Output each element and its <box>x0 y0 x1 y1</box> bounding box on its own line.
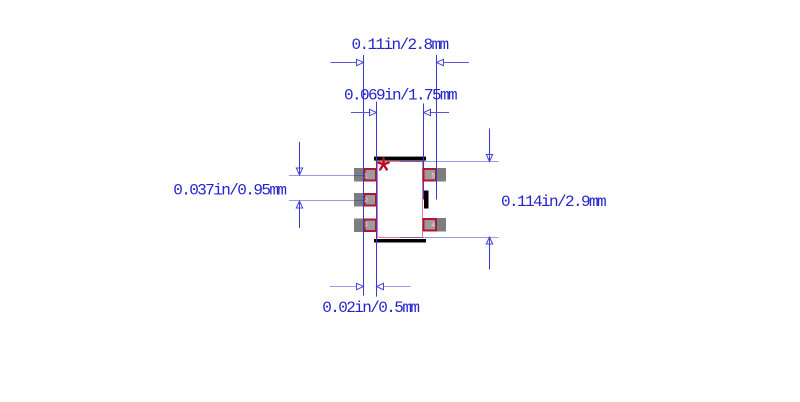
svg-text:0.02in/0.5mm: 0.02in/0.5mm <box>322 299 419 317</box>
svg-text:2: 2 <box>364 197 368 204</box>
svg-text:1: 1 <box>364 172 368 179</box>
svg-text:0.114in/2.9mm: 0.114in/2.9mm <box>501 193 606 211</box>
svg-text:5: 5 <box>431 172 435 179</box>
svg-text:0.069in/1.75mm: 0.069in/1.75mm <box>344 86 457 104</box>
svg-text:0.037in/0.95mm: 0.037in/0.95mm <box>173 181 286 199</box>
svg-text:0.11in/2.8mm: 0.11in/2.8mm <box>352 36 449 54</box>
svg-text:3: 3 <box>364 222 368 229</box>
svg-text:4: 4 <box>431 222 435 229</box>
